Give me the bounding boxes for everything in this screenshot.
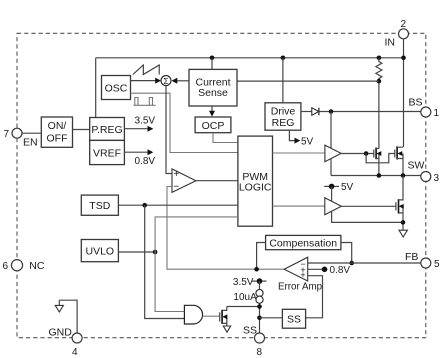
transistor Q2 high-side main FET [395, 146, 403, 175]
wire current source to SS node and pin [259, 303, 261, 333]
wire high-side driver return to SW [330, 159, 332, 176]
ground power ground symbol [399, 230, 407, 237]
node junction comp/FB [349, 261, 354, 266]
wire driver output to low-side FET gate [341, 205, 396, 207]
op-amp VREF block [90, 140, 125, 164]
sawtooth waveform icon [133, 65, 159, 75]
wire OSC clock to PWM logic [131, 93, 238, 152]
wire Current Sense to OCP with arrowhead [209, 106, 215, 117]
svg-text:OSC: OSC [105, 83, 128, 95]
svg-text:+: + [300, 270, 305, 280]
node junction on rail at Current Sense [210, 56, 215, 61]
wire SS node to SS block [260, 317, 283, 319]
wire P.REG 3.5V output arrow [124, 116, 155, 132]
op-amp SS block [282, 309, 305, 328]
svg-text:0.8V: 0.8V [330, 265, 351, 276]
svg-text:NC: NC [29, 260, 45, 272]
node junction BS / driver supply [329, 109, 334, 114]
op-amp OCP block [195, 117, 231, 133]
wire VREF 0.8V output arrow [124, 149, 155, 167]
op-amp TSD block [81, 195, 118, 215]
wire FB line from error amp to pin [308, 262, 421, 264]
svg-text:UVLO: UVLO [86, 246, 115, 258]
pin 7 EN [4, 128, 38, 148]
transistor Q3 soft-start discharge FET [220, 307, 228, 326]
op-amp OSC box [102, 76, 131, 100]
svg-text:IN: IN [385, 37, 396, 49]
node 5V tap for low-side driver [324, 182, 353, 193]
op-amp PWM LOGIC block [238, 136, 273, 226]
wire Current Sense output to sigma with arrowhead [172, 78, 190, 84]
op-amp UVLO block [81, 240, 118, 262]
svg-text:Σ: Σ [163, 76, 168, 86]
wire EN pin to ON/OFF [22, 132, 41, 134]
svg-text:BS: BS [409, 97, 423, 109]
wire rail to Drive REG top [282, 58, 284, 103]
svg-text:3: 3 [434, 173, 440, 184]
wire UVLO down to AND gate [155, 252, 184, 312]
op-amp Current Sense block [189, 69, 237, 106]
svg-text:3.5V: 3.5V [135, 116, 156, 127]
svg-text:Drive: Drive [271, 105, 296, 117]
gate AND (shutdown logic) [184, 305, 202, 324]
svg-text:+: + [173, 169, 179, 180]
svg-text:Compensation: Compensation [269, 238, 337, 250]
op-amp Error Amp [278, 257, 323, 292]
wire UVLO output [118, 251, 155, 253]
pin 4 GND [49, 326, 83, 358]
wire ON/OFF to P.REG [73, 129, 90, 131]
IC boundary dashed border [17, 33, 426, 337]
pin 5 FB [405, 251, 440, 270]
wire GND symbol to GND pin [59, 300, 77, 333]
svg-text:1: 1 [434, 108, 440, 119]
wire FET drain to soft-start node [227, 306, 260, 308]
svg-text:P.REG: P.REG [91, 124, 122, 136]
svg-text:FB: FB [405, 251, 418, 263]
pin 8 SS [243, 325, 265, 358]
wire comparator output to PWM logic [196, 180, 238, 182]
wire sense node down to FET1 drain [378, 81, 380, 148]
wire gate bracket to second FET gate [366, 154, 395, 163]
wire PWM to low-side driver [273, 205, 325, 207]
svg-text:OFF: OFF [47, 132, 68, 144]
node 0.8V reference tap [308, 265, 351, 276]
op-amp PWM comparator [172, 169, 196, 193]
node junction rail/IN [401, 56, 406, 61]
svg-text:−: − [173, 182, 179, 193]
node junction on rail at sense resistor [377, 56, 382, 61]
wire 5V tap into driver [331, 186, 333, 201]
transistor Q1 high-side sense FET [374, 148, 382, 176]
wire SW rail [331, 175, 421, 177]
svg-text:TSD: TSD [89, 200, 110, 212]
svg-text:REG: REG [272, 117, 295, 129]
resistor current sense (vertical zigzag) [376, 58, 382, 81]
svg-text:LOGIC: LOGIC [239, 182, 272, 194]
op-amp high-side gate driver [325, 145, 341, 162]
wire driver output to FET gates [341, 153, 374, 155]
node junction UVLO branch [153, 250, 158, 255]
op-amp ON/OFF block [41, 117, 72, 147]
wire SS to error amp third input [306, 276, 323, 318]
svg-text:5V: 5V [301, 136, 314, 147]
pin 6 NC [3, 260, 45, 273]
wire 3.5V to current source [259, 281, 261, 290]
node junction on rail at Drive REG [281, 56, 286, 61]
wire compensation right tap to FB [341, 243, 352, 264]
op-amp P.REG block [90, 118, 125, 141]
node junction low-side source / driver return [401, 220, 406, 225]
svg-text:8: 8 [257, 347, 263, 358]
node junction comp/output [254, 267, 259, 272]
svg-text:5: 5 [434, 259, 440, 270]
svg-text:SW: SW [408, 160, 425, 172]
svg-text:4: 4 [72, 347, 78, 358]
diode bootstrap [301, 108, 421, 116]
svg-text:2: 2 [401, 19, 407, 30]
node junction sense resistor bottom [377, 79, 382, 84]
node junction gate node [364, 151, 369, 156]
svg-text:0.8V: 0.8V [135, 156, 156, 167]
svg-text:EN: EN [23, 136, 38, 148]
svg-text:3.5V: 3.5V [233, 277, 254, 288]
svg-text:VREF: VREF [93, 148, 121, 160]
wire TSD to PWM logic [118, 204, 237, 206]
current source 10uA (double circle) [233, 290, 263, 304]
wire top supply rail from P.REG to IN [96, 57, 404, 59]
op-amp low-side gate driver [325, 198, 342, 215]
pin 3 SW [408, 160, 440, 185]
pin 2 IN [385, 19, 409, 48]
wire AND output to SS discharge FET gate [203, 315, 220, 317]
ground (soft-start FET source) [223, 326, 230, 332]
svg-text:Error Amp: Error Amp [278, 282, 323, 293]
svg-text:OCP: OCP [202, 120, 225, 132]
svg-text:6: 6 [3, 261, 9, 272]
wire low-side driver return [332, 211, 403, 222]
ground internal GND symbol [55, 300, 63, 312]
pin 1 BS [409, 97, 440, 120]
svg-text:ON/: ON/ [48, 120, 67, 132]
wire sigma output down to PWM comparator plus input [166, 86, 172, 174]
op-amp Drive REG block [265, 103, 301, 130]
svg-text:SS: SS [243, 325, 257, 337]
wire OSC to summing node with arrowhead [131, 78, 162, 84]
wire TSD down to AND gate [145, 205, 185, 318]
wire IN vertical to high-side FET drain [403, 39, 405, 147]
svg-text:5V: 5V [341, 182, 354, 193]
svg-text:GND: GND [49, 326, 73, 338]
transistor Q4 low-side FET [396, 176, 404, 230]
summing node sigma [161, 76, 171, 86]
wire UVLO up to PWM logic [155, 217, 238, 252]
wire BS node down to high-side driver [330, 112, 332, 149]
wire Drive REG 5V output arrow [289, 130, 313, 147]
wire P.REG feed vertical [95, 58, 97, 118]
op-amp Compensation block [266, 235, 341, 249]
node junction SS / SS block [257, 316, 262, 321]
wire PWM to high-side driver [273, 152, 325, 154]
node junction Q1 source / SW [377, 173, 382, 178]
node junction SS / FET drain [257, 304, 262, 309]
node junction Q2 source / SW [401, 173, 406, 178]
wire compensation left tap to error amp output [257, 243, 266, 270]
wire error amp output to comparator minus input [167, 187, 284, 270]
wire IN to Current Sense top [211, 58, 213, 70]
wire OCP output to PWM logic [213, 133, 238, 143]
wire sense node to Current Sense right side [237, 80, 379, 82]
node junction TSD branch [142, 203, 147, 208]
node 3.5V tap for soft start [233, 277, 267, 288]
svg-text:SS: SS [287, 314, 301, 326]
svg-text:7: 7 [4, 129, 10, 140]
svg-text:Sense: Sense [198, 87, 228, 99]
pulse waveform icon [134, 98, 156, 106]
svg-text:10uA: 10uA [233, 292, 257, 303]
